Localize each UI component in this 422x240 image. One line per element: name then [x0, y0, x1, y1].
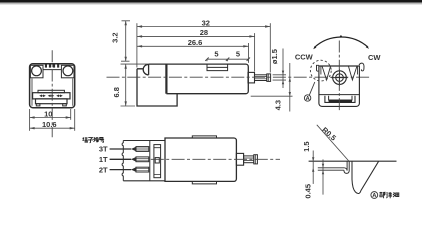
svg-text:10.6: 10.6 [42, 120, 57, 129]
svg-text:5: 5 [236, 49, 240, 58]
slider track [154, 145, 161, 178]
dim line 32 [137, 26, 270, 28]
4.3 ext tick [251, 95, 293, 97]
ext right 28 [254, 33, 256, 71]
shaft inner lines [255, 77, 267, 79]
svg-text:10: 10 [44, 109, 52, 118]
inner ledge line [43, 69, 61, 71]
extension lines 10 / 10.6 [29, 109, 31, 131]
svg-text:26.6: 26.6 [188, 38, 203, 47]
svg-text:CCW: CCW [295, 52, 314, 61]
wiper block [155, 158, 159, 163]
svg-text:ø1.5: ø1.5 [270, 49, 279, 64]
inner side wall lines [32, 79, 73, 106]
slider rect top [38, 90, 64, 92]
svg-text:3T: 3T [99, 145, 108, 154]
detail label CJK (hand drawn) [380, 192, 399, 198]
bottom view centerline [151, 158, 280, 160]
end view vertical centerline [338, 41, 340, 111]
cap inner line [255, 155, 257, 164]
top tab [192, 136, 216, 138]
bracket/body boundary [165, 64, 167, 94]
right V notch [348, 66, 357, 80]
front view dimensions [30, 109, 75, 131]
top teeth [45, 64, 59, 67]
flange line [319, 94, 360, 96]
svg-text:1.5: 1.5 [302, 141, 311, 151]
callout A leader [309, 82, 315, 95]
main centerline [107, 76, 372, 78]
body outline [319, 66, 360, 106]
vertical centerline [51, 50, 53, 137]
phi1.5 ext lines [273, 75, 286, 80]
top tray [207, 64, 228, 71]
svg-text:0.45: 0.45 [304, 184, 313, 199]
cap bottom view [254, 155, 258, 164]
foot left [36, 104, 40, 106]
body outline [165, 138, 236, 181]
shaft inner lines bottom view [244, 158, 254, 161]
terminal row 3T [110, 147, 149, 152]
callout A circle [304, 95, 310, 101]
arc apex dot [340, 35, 342, 37]
sheet horizontals [318, 168, 345, 170]
terminal bowties [39, 95, 63, 98]
terminal row 1T [110, 157, 149, 162]
svg-text:A: A [372, 193, 377, 199]
dim line 28 [137, 35, 255, 37]
ext right 32 [269, 23, 271, 72]
housing outline [123, 141, 165, 181]
4.3 dim vertical [282, 49, 284, 89]
screw boss left [30, 65, 43, 78]
terminal block outer [325, 96, 355, 103]
label terminal numbers CJK (hand drawn) [82, 137, 104, 143]
slider wide bar [33, 93, 70, 99]
svg-text:5: 5 [214, 49, 218, 58]
char xiang [386, 192, 392, 198]
3.2 dim line [121, 21, 130, 61]
left V notch [322, 66, 331, 80]
svg-text:28: 28 [200, 28, 208, 37]
svg-text:A: A [306, 96, 310, 102]
right ear [359, 63, 364, 71]
char bian [94, 137, 99, 142]
cap inner line [268, 74, 270, 82]
4.3 dim vertical line [289, 63, 291, 112]
slider lower block [36, 99, 68, 104]
terminal row 2T [110, 167, 149, 172]
dimension line 10.6 [30, 127, 75, 129]
detail callout dashed circle [310, 60, 331, 81]
svg-text:1T: 1T [99, 155, 108, 164]
track end ticks [154, 148, 161, 175]
detail dims [312, 125, 349, 195]
left ear [317, 65, 319, 71]
housing scalloped left edge [122, 141, 123, 181]
svg-text:6.8: 6.8 [112, 87, 121, 97]
shaft outer circle [333, 71, 347, 85]
screw boss right [61, 65, 74, 78]
5|5 oblique ticks [205, 58, 250, 61]
svg-text:32: 32 [202, 18, 210, 27]
shaft [255, 75, 267, 81]
shaft end cap [267, 74, 271, 82]
top border band [0, 0, 422, 5]
cross slot [331, 69, 347, 85]
collar [248, 72, 255, 83]
arc arrowheads [313, 46, 369, 50]
terminal block dark bar [329, 100, 352, 102]
6.8 dim line [121, 64, 148, 106]
svg-text:2T: 2T [99, 165, 108, 174]
5|5 dim line [207, 59, 248, 61]
char zi [88, 138, 93, 143]
1.5 dim line [312, 151, 314, 184]
terminal bowtie lines [41, 95, 62, 97]
sheet u-bend curl [344, 161, 349, 173]
housing inner wall [149, 141, 151, 181]
char bu [380, 192, 386, 198]
side view dimensions [121, 21, 293, 112]
shaft bottom view [244, 156, 254, 163]
collar bottom view [236, 153, 243, 165]
char hao [99, 138, 104, 143]
detail label A circle [371, 192, 378, 199]
svg-text:4.3: 4.3 [273, 100, 282, 110]
rotation arc [314, 37, 368, 48]
dimension line 10 [30, 117, 71, 119]
char xi [393, 192, 399, 197]
screw circle right [63, 66, 73, 76]
foot right [63, 104, 67, 106]
svg-text:3.2: 3.2 [111, 32, 120, 42]
body outline with bracket and foot [137, 64, 177, 106]
ext right 26.6 [248, 43, 250, 63]
common left extension line [136, 23, 138, 67]
terminal block inner [329, 96, 352, 100]
main body [149, 64, 249, 94]
claw fang [352, 161, 379, 193]
inner side walls [321, 66, 358, 75]
bottom tab [192, 181, 216, 184]
top surface line [309, 160, 397, 162]
arrows [137, 25, 270, 47]
shaft inner circle [336, 74, 344, 82]
svg-text:R0.5: R0.5 [320, 125, 338, 142]
screw circle left [32, 66, 42, 76]
0.45 dim line [322, 159, 324, 194]
svg-text:CW: CW [368, 53, 381, 62]
R0.5 leader [317, 125, 349, 161]
dim line 26.6 [137, 45, 249, 47]
char duan [82, 137, 87, 143]
body outline [30, 64, 75, 108]
